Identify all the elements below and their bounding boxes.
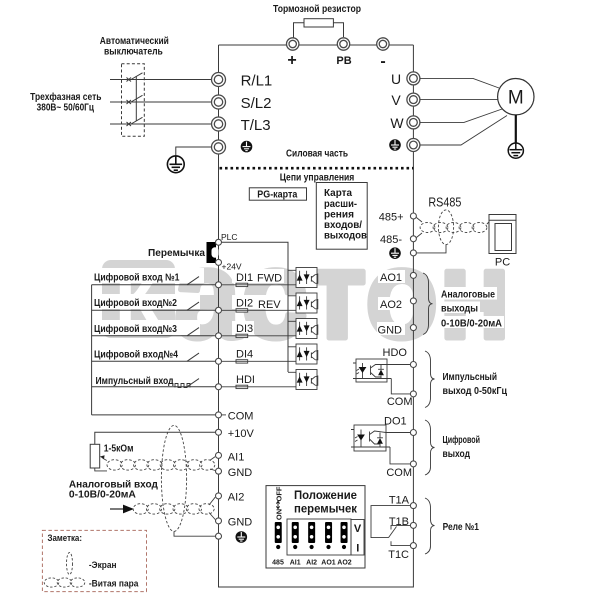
svg-text:AO1: AO1 — [380, 272, 402, 284]
svg-text:выходов: выходов — [324, 230, 367, 241]
svg-text:Цифровой: Цифровой — [443, 434, 481, 446]
svg-text:W: W — [390, 115, 404, 131]
svg-text:Импульсный вход: Импульсный вход — [96, 376, 175, 387]
svg-text:DI3: DI3 — [236, 323, 253, 335]
svg-text:COM: COM — [386, 467, 412, 479]
svg-text:RS485: RS485 — [428, 196, 461, 210]
svg-text:DI2: DI2 — [236, 298, 253, 310]
svg-text:REV: REV — [258, 299, 281, 311]
svg-text:485+: 485+ — [379, 212, 404, 224]
svg-text:+: + — [287, 52, 296, 69]
svg-text:Силовая часть: Силовая часть — [286, 149, 348, 160]
svg-text:Цифровой вход№2: Цифровой вход№2 — [94, 297, 177, 309]
svg-text:выходы: выходы — [441, 304, 478, 315]
svg-text:AO2: AO2 — [337, 560, 352, 567]
svg-text:Заметка:: Заметка: — [48, 533, 83, 544]
svg-text:-: - — [380, 53, 385, 70]
svg-text:Автоматический: Автоматический — [100, 36, 169, 47]
svg-text:OFF: OFF — [275, 486, 284, 501]
svg-text:Положение: Положение — [294, 490, 357, 502]
svg-text:0-10В/0-20мА: 0-10В/0-20мА — [441, 318, 502, 329]
svg-text:380В~ 50/60Гц: 380В~ 50/60Гц — [37, 102, 95, 113]
svg-text:входов/: входов/ — [324, 220, 362, 231]
svg-text:Цепи управления: Цепи управления — [280, 173, 355, 184]
svg-text:COM: COM — [387, 396, 413, 408]
svg-text:T/L3: T/L3 — [241, 117, 271, 134]
svg-text:GND: GND — [228, 517, 253, 529]
svg-text:T1C: T1C — [388, 549, 409, 561]
svg-text:485: 485 — [272, 560, 284, 567]
svg-text:AI2: AI2 — [306, 560, 317, 567]
svg-text:AI2: AI2 — [228, 492, 245, 504]
svg-text:GND: GND — [228, 467, 253, 479]
svg-text:AO1: AO1 — [321, 560, 336, 567]
svg-text:Трехфазная сеть: Трехфазная сеть — [30, 91, 101, 103]
svg-text:GND: GND — [378, 324, 403, 336]
svg-text:DI1: DI1 — [236, 272, 253, 284]
svg-text:выключатель: выключатель — [104, 47, 163, 58]
svg-text:PG-карта: PG-карта — [257, 189, 297, 200]
svg-text:U: U — [391, 71, 401, 87]
svg-text:Цифровой вход №1: Цифровой вход №1 — [94, 271, 180, 283]
svg-text:AO2: AO2 — [380, 299, 402, 311]
svg-text:DO1: DO1 — [384, 416, 407, 428]
svg-text:РВ: РВ — [336, 55, 351, 67]
svg-text:расши-: расши- — [324, 199, 357, 210]
svg-text:-Витая пара: -Витая пара — [89, 579, 139, 590]
svg-text:PC: PC — [495, 257, 510, 269]
svg-text:+24V: +24V — [222, 262, 242, 272]
svg-text:V: V — [391, 92, 401, 108]
svg-text:Аналоговые: Аналоговые — [441, 290, 495, 301]
svg-text:выход: выход — [443, 449, 471, 460]
svg-text:Импульсный: Импульсный — [443, 372, 498, 383]
svg-text:FWD: FWD — [257, 273, 282, 285]
svg-text:Цифровой вход№3: Цифровой вход№3 — [94, 323, 177, 335]
svg-text:-Экран: -Экран — [89, 560, 117, 571]
svg-text:Реле №1: Реле №1 — [443, 522, 480, 533]
svg-text:0-10В/0-20мА: 0-10В/0-20мА — [69, 490, 136, 501]
svg-text:AI1: AI1 — [290, 560, 301, 567]
svg-text:S/L2: S/L2 — [241, 95, 272, 112]
svg-text:COM: COM — [228, 411, 254, 423]
svg-text:T1B: T1B — [389, 516, 409, 528]
svg-text:V: V — [354, 523, 362, 535]
svg-text:Тормозной резистор: Тормозной резистор — [273, 4, 361, 15]
svg-text:1-5кОм: 1-5кОм — [104, 444, 134, 455]
svg-text:рения: рения — [324, 209, 354, 220]
svg-text:HDO: HDO — [383, 347, 408, 359]
svg-text:T1A: T1A — [389, 494, 410, 506]
svg-text:перемычек: перемычек — [294, 504, 357, 516]
svg-text:DI4: DI4 — [236, 349, 253, 361]
svg-text:Перемычка: Перемычка — [148, 248, 205, 259]
svg-text:Карта: Карта — [324, 188, 352, 199]
svg-text:+10V: +10V — [228, 428, 255, 440]
svg-text:M: M — [508, 88, 524, 109]
svg-text:HDI: HDI — [236, 374, 255, 386]
svg-text:PLC: PLC — [221, 232, 238, 242]
svg-text:ON: ON — [275, 509, 284, 520]
svg-text:AI1: AI1 — [228, 451, 245, 463]
svg-text:выход 0-50кГц: выход 0-50кГц — [443, 386, 508, 397]
svg-text:Цифровой вход№4: Цифровой вход№4 — [94, 349, 178, 361]
svg-text:485-: 485- — [380, 234, 402, 246]
svg-text:I: I — [356, 543, 359, 555]
svg-text:R/L1: R/L1 — [241, 73, 273, 90]
